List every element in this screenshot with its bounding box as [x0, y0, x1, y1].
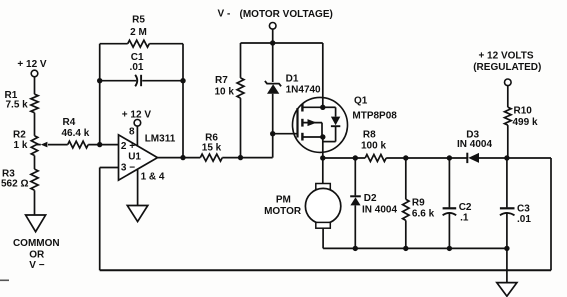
wire D2 top lead: [354, 158, 356, 195]
ground COMMON: [26, 215, 46, 232]
wire top rail: [241, 42, 323, 44]
wire bottom rail: [100, 269, 551, 271]
svg-text:6.6 k: 6.6 k: [412, 208, 435, 219]
resistor R9: [403, 199, 409, 220]
svg-text:3 −: 3 −: [121, 162, 135, 173]
resistor R4: [48, 144, 68, 146]
node C2 bottom: [447, 246, 452, 251]
wire C3 bottom lead: [506, 213, 508, 248]
diode D3: [466, 153, 468, 163]
svg-text:D1: D1: [286, 74, 299, 85]
wire Q1 source: [322, 43, 324, 107]
wire pin3: [100, 167, 119, 169]
wire R7 bottom: [240, 98, 242, 158]
wire right riser: [550, 158, 552, 270]
wire R8 to D3: [386, 157, 467, 159]
svg-text:R9: R9: [412, 198, 425, 209]
svg-text:R10: R10: [514, 106, 533, 117]
wire terminal to R10: [507, 86, 509, 108]
node drain: [320, 155, 325, 160]
node feedback-left: [97, 142, 102, 147]
svg-text:V −: V −: [29, 260, 44, 271]
node R7 bottom: [238, 155, 243, 160]
node rail: [270, 40, 275, 45]
node C2 top: [447, 155, 452, 160]
wire R6 to gate corner: [222, 157, 272, 159]
node D2 top: [353, 155, 358, 160]
node R9 top: [403, 155, 408, 160]
svg-text:46.4 k: 46.4 k: [62, 128, 90, 139]
svg-text:R7: R7: [215, 75, 228, 86]
node R9 bottom: [403, 246, 408, 251]
wire feedback right leg: [182, 44, 184, 158]
svg-text:R8: R8: [363, 130, 376, 141]
svg-text:(MOTOR VOLTAGE): (MOTOR VOLTAGE): [240, 9, 333, 20]
wire R2 to R3: [34, 156, 36, 170]
wire terminal to rail: [272, 29, 274, 43]
wire to ground right: [506, 248, 508, 282]
wire stub bottom-left: [0, 279, 9, 281]
wire pin3 down: [99, 168, 101, 271]
wire pins 1 and 4: [137, 170, 139, 206]
wire pin8: [136, 126, 138, 146]
resistor R10: [505, 107, 512, 125]
resistor R3: [31, 169, 38, 190]
svg-text:COMMON: COMMON: [13, 238, 60, 249]
wire R5 top right: [149, 43, 183, 45]
resistor R7: [237, 78, 244, 98]
ground op-amp: [127, 206, 148, 222]
svg-text:.01: .01: [517, 214, 531, 225]
ground right: [497, 283, 517, 297]
wire R4 to pin2: [88, 144, 118, 146]
svg-text:D2: D2: [364, 193, 377, 204]
svg-text:Q1: Q1: [354, 96, 368, 107]
transistor Q1: [293, 97, 348, 152]
svg-text:1 k: 1 k: [14, 140, 28, 151]
wire R1 to R2: [34, 113, 36, 136]
wire R5 top left: [100, 43, 128, 45]
wire R3 to ground: [34, 190, 36, 215]
svg-text:(REGULATED): (REGULATED): [473, 62, 541, 73]
svg-text:R4: R4: [63, 117, 76, 128]
wire Q1 drain: [322, 137, 324, 158]
svg-text:8: 8: [129, 127, 135, 138]
wire motor top: [322, 158, 324, 184]
svg-text:R2: R2: [13, 129, 26, 140]
svg-text:2 +: 2 +: [121, 141, 135, 152]
motor M1: [316, 184, 331, 190]
svg-text:100 k: 100 k: [361, 141, 386, 152]
svg-text:LM311: LM311: [145, 134, 176, 145]
svg-text:MOTOR: MOTOR: [264, 206, 302, 217]
wire R9 top lead: [405, 158, 407, 199]
diode D2: [350, 195, 361, 197]
resistor R6: [200, 154, 222, 161]
node output feedback: [180, 155, 185, 160]
node C1 left: [97, 78, 102, 83]
svg-text:+ 12 V: + 12 V: [122, 110, 152, 121]
wire R9 bottom lead: [405, 220, 407, 248]
wire op-amp output: [158, 157, 201, 159]
op-amp U1: [119, 135, 158, 180]
svg-text:1N4740: 1N4740: [286, 85, 321, 96]
svg-text:MTP8P08: MTP8P08: [352, 110, 397, 121]
node C1 right: [180, 78, 185, 83]
wire motor bottom: [322, 228, 324, 248]
wire D2 bottom lead: [354, 205, 356, 248]
wire T1 to R1: [34, 77, 36, 94]
wire R7 top: [240, 43, 242, 78]
svg-text:1 & 4: 1 & 4: [141, 172, 165, 183]
wire D1 to gate node: [272, 94, 274, 158]
svg-text:IN 4004: IN 4004: [457, 139, 492, 150]
node bottom right: [504, 246, 509, 251]
node R10 bottom: [504, 155, 509, 160]
svg-text:V -: V -: [218, 9, 231, 20]
svg-text:562 Ω: 562 Ω: [1, 178, 28, 189]
terminal +12V regulated: [505, 79, 512, 86]
svg-text:+ 12 V: + 12 V: [17, 59, 47, 70]
svg-text:15 k: 15 k: [202, 143, 222, 154]
terminal +12V left: [31, 70, 38, 77]
capacitor C2: [443, 207, 457, 209]
svg-text:.1: .1: [460, 213, 469, 224]
wire C3 top lead: [506, 158, 508, 207]
svg-text:.01: .01: [130, 62, 144, 73]
potentiometer R2: [31, 136, 37, 156]
wire drain to R8: [323, 157, 365, 159]
wire feedback left leg: [99, 44, 101, 145]
terminal V- motor voltage: [269, 23, 276, 30]
resistor R1: [31, 94, 38, 113]
svg-text:7.5 k: 7.5 k: [6, 99, 29, 110]
svg-text:PM: PM: [276, 195, 291, 206]
wire D3 to corner: [479, 157, 551, 159]
wire R10 bottom: [507, 125, 509, 158]
node gate: [270, 131, 275, 136]
wire C2 top lead: [448, 158, 450, 207]
terminal +12V op-amp: [134, 120, 141, 127]
resistor R5: [128, 40, 150, 47]
capacitor C1: [100, 80, 137, 82]
wire bottom node line: [323, 247, 507, 249]
wire D1 top: [272, 43, 274, 82]
svg-text:C2: C2: [459, 202, 472, 213]
svg-text:+ 12 VOLTS: + 12 VOLTS: [478, 51, 533, 62]
resistor R8: [365, 155, 386, 162]
node D2 bottom: [353, 246, 358, 251]
svg-text:IN 4004: IN 4004: [362, 204, 397, 215]
svg-text:U1: U1: [128, 152, 141, 163]
wire gate lead: [273, 133, 298, 135]
svg-text:2 M: 2 M: [130, 27, 147, 38]
wire C2 bottom lead: [448, 213, 450, 248]
zener D1: [265, 81, 281, 86]
svg-text:R5: R5: [132, 15, 145, 26]
svg-text:499 k: 499 k: [513, 117, 538, 128]
svg-text:10 k: 10 k: [215, 87, 235, 98]
capacitor C3: [500, 207, 515, 209]
